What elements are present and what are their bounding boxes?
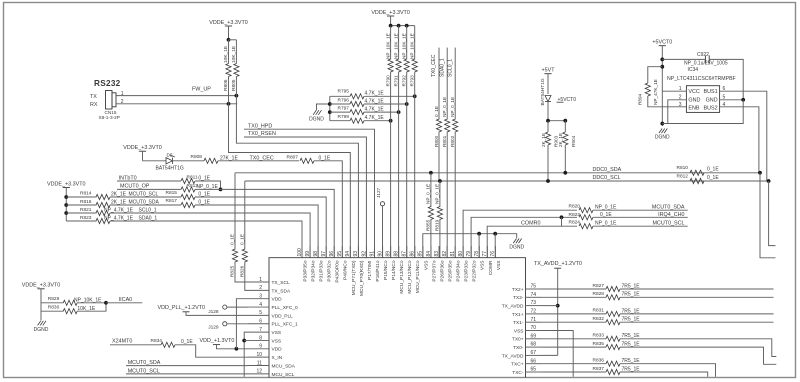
pin 73 (TX_AVDD) [502,300,542,309]
svg-text:VSS: VSS [480,261,486,271]
svg-text:IICA0: IICA0 [119,297,132,303]
net label TX0_RSEN [248,131,276,137]
svg-text:96: 96 [329,251,335,257]
resistor R810 [677,165,720,175]
svg-text:P15/NCo: P15/NCo [383,260,389,280]
svg-text:P14/NCo: P14/NCo [391,260,397,280]
resistor R817 [166,198,211,207]
svg-text:VSS: VSS [496,261,502,271]
svg-text:R821: R821 [80,207,92,213]
svg-text:R812: R812 [677,174,689,180]
net label MCUT0_SDA (right) [652,205,685,211]
wire MCUT0_SDA to pin98 [195,205,318,258]
svg-text:MCU_P13/NCo: MCU_P13/NCo [399,260,405,293]
svg-text:X_IN: X_IN [272,355,283,361]
svg-text:5: 5 [259,310,262,316]
pin 80 (P23/P33o) [458,246,470,282]
svg-text:GND: GND [688,98,700,104]
svg-text:TX2+: TX2+ [512,287,524,293]
net label X24MT0 [112,339,132,345]
svg-text:R836: R836 [593,358,605,364]
wire TX0_RSEN to pin92 [244,137,366,258]
node row1 tap [64,195,68,199]
svg-text:TX0_CEC: TX0_CEC [431,54,437,77]
svg-text:BUS2: BUS2 [704,105,718,111]
node VSS pin8 [242,339,246,343]
net label SCL0_1 (row) [139,207,157,213]
svg-text:VDD: VDD [272,297,283,303]
pin 2 (TX_SDA) [248,285,291,294]
svg-text:MCUT0_SCL: MCUT0_SCL [652,221,684,227]
resistor R831 [542,308,774,317]
resistor R791 [393,26,401,258]
label IC34 part [667,76,736,82]
svg-text:TX1-: TX1- [513,320,524,326]
power TX_AVDD_+1.2VT0 [534,261,582,355]
wire VSS rail [423,234,517,258]
svg-text:R834: R834 [151,338,163,344]
svg-text:R828: R828 [593,291,605,297]
wire pin78 drop [478,234,480,258]
svg-text:VDDE_+3.3VT0: VDDE_+3.3VT0 [371,10,410,16]
wire TX to MCU RXD pin93 [236,96,358,258]
net label TX0_CEC (vertical) [431,48,439,77]
resistor R801 [442,77,450,258]
svg-text:3: 3 [679,102,682,108]
svg-text:R827: R827 [593,283,605,289]
svg-text:7: 7 [259,327,262,333]
svg-text:83: 83 [434,251,440,257]
svg-text:P43/OP0o: P43/OP0o [335,260,341,282]
svg-text:+5VT: +5VT [541,68,555,74]
svg-text:NP_0_1E: NP_0_1E [442,97,447,117]
node R795-R793col [413,94,417,98]
resistor R837 [542,366,708,377]
svg-text:93: 93 [353,251,359,257]
svg-text:R824: R824 [569,219,581,225]
svg-text:MCU_SCL: MCU_SCL [272,372,295,378]
pin 96 (P43/OP0o) [329,246,341,283]
svg-text:VSS: VSS [423,261,429,271]
wire IICA0 [106,302,142,304]
pin 82 (P25/P35o) [442,246,454,282]
svg-text:78: 78 [474,251,480,257]
resistor R805 [231,40,239,96]
pin 3 (VDD) [248,294,283,303]
resistor R792 [402,26,410,258]
svg-text:4.7K_1E: 4.7K_1E [365,115,385,121]
svg-text:TX_SDA: TX_SDA [272,288,291,294]
svg-text:D5: D5 [167,153,173,159]
wire BUS1 stub [769,181,776,246]
svg-text:65: 65 [531,367,537,373]
wire jog to R805 [229,39,237,41]
node rail-R790 [389,24,393,28]
ground DGND (IICA0) [34,321,49,333]
resistor R836 [542,358,716,377]
svg-text:VSS: VSS [272,330,282,336]
svg-text:R807: R807 [287,154,299,160]
svg-text:R799: R799 [338,114,350,120]
svg-text:SCL0_1: SCL0_1 [447,59,453,77]
svg-text:4: 4 [723,102,726,108]
pin 77 (COMR) [482,246,494,275]
pin 78 (VSS) [474,246,486,270]
op-amp U MCU box [269,258,526,378]
pin 11 (MCU_SDA) [248,360,296,369]
power VDDE_+3.3VT0 (top left) [209,20,248,40]
svg-text:R894: R894 [638,93,643,105]
pin 10 (X_IN) [248,352,283,361]
wire RX to MCU TXD pin94 [229,104,351,258]
svg-text:R814: R814 [80,190,92,196]
net label MCUT0_SDA (row) [110,200,181,206]
svg-text:0_1E: 0_1E [230,234,235,245]
pin 4 (IC34) [720,102,759,173]
svg-text:6: 6 [259,319,262,325]
resistor R903 [541,121,559,181]
svg-text:R805: R805 [231,79,237,91]
wire pulldown bus [329,96,331,120]
wire DDC0_SCL [245,180,769,182]
net label FW_UP [192,87,211,93]
label IC34 GND/GND [688,98,717,104]
wire CN15 pin1 (FW_UP / TX) [116,95,236,97]
resistor R796 [330,98,407,107]
svg-text:R791: R791 [393,75,398,87]
pin 81 (P24/P34o) [450,246,462,282]
node R797-R791col [397,110,401,114]
node R903-SCL [546,179,550,183]
svg-text:R796: R796 [338,98,350,104]
power VDDE_+3.3VT0 (IICA0) [22,283,61,321]
node rail-R792 [405,24,409,28]
pin 5 (IC34) [720,94,744,100]
node R799-R790col [389,119,393,123]
resistor R830 [41,303,106,314]
node RX junction [227,102,231,106]
net label SCL0_1 (vertical) [447,48,455,77]
pin 74 (TX2-) [513,292,541,301]
svg-text:NP_4.7K_1E: NP_4.7K_1E [104,215,134,221]
svg-text:NP_0_1E: NP_0_1E [595,205,617,211]
svg-text:74: 74 [531,292,537,298]
svg-text:82: 82 [442,251,448,257]
resistor R799 [330,114,391,123]
svg-text:70: 70 [531,325,537,331]
svg-text:DGND: DGND [309,116,324,122]
svg-text:R793: R793 [410,75,415,87]
wire SDA0_1 to pin100 [110,221,302,258]
svg-text:12: 12 [256,369,262,375]
node SDA-R855 [429,171,433,175]
svg-text:GND: GND [706,98,718,104]
net label MCUT0_SCL (bottom) [128,368,160,374]
node pin5-C922 [741,98,745,102]
node VDD join [235,347,239,351]
svg-text:90: 90 [377,251,383,257]
svg-text:1: 1 [121,91,124,97]
svg-text:MCU_P70(RXD): MCU_P70(RXD) [359,260,365,296]
svg-text:P26/P36o: P26/P36o [439,260,445,281]
svg-text:MCUT0_OP: MCUT0_OP [120,183,150,189]
resistor R802 [450,77,458,258]
svg-text:88: 88 [394,251,400,257]
pin 86 (MCU_P11/NCo) [410,246,422,293]
svg-text:DGND: DGND [34,327,49,333]
resistor R797 [330,106,399,115]
jumper J127 [376,187,384,257]
wire TX0_HPD to pin91 [244,129,375,258]
svg-text:PLL_XFC_0: PLL_XFC_0 [272,305,298,311]
pin 97 (P30/P32o) [321,246,333,282]
svg-text:TX_AVDD_+1.2VT0: TX_AVDD_+1.2VT0 [534,261,582,267]
svg-text:DGND: DGND [655,135,670,141]
pin 5 (VDD_PLL) [248,310,294,319]
node 2K-right [563,119,567,123]
label IC34 ENB/BUS2 [688,105,717,111]
resistor R894 [638,67,687,107]
net label MCUT0_SDA (bottom) [128,360,161,366]
svg-text:67: 67 [531,350,537,356]
svg-text:J129: J129 [208,324,219,330]
svg-text:VDDE_+3.3VT0: VDDE_+3.3VT0 [209,20,248,26]
svg-text:R820: R820 [569,204,581,210]
svg-text:NP_0.1u/25V_1005: NP_0.1u/25V_1005 [684,60,728,66]
svg-text:P24/P34o: P24/P34o [456,260,462,281]
node R904-SDA [563,171,567,175]
svg-text:BUS1: BUS1 [704,89,718,95]
svg-text:R817: R817 [166,198,178,204]
svg-text:99: 99 [305,251,311,257]
net label SDA0_1 (row) [139,215,158,221]
resistor R835 [542,341,777,364]
svg-text:81: 81 [450,251,456,257]
node rail-pin78 [477,232,481,236]
svg-text:100: 100 [297,248,303,257]
svg-text:VDDE_+3.3VT0: VDDE_+3.3VT0 [123,145,162,151]
svg-text:0_1E: 0_1E [239,234,244,245]
svg-text:TXC-: TXC- [512,370,524,376]
net label MCUT0_OP [120,183,150,189]
svg-text:10: 10 [256,352,262,358]
net label IICA0 [119,297,132,303]
svg-text:R829: R829 [48,296,60,302]
pin 12 (MCU_SCL) [248,369,295,378]
ground DGND (R795 group) [309,104,330,122]
pin 1 (IC34) [662,86,686,92]
node bus-row2 [328,102,332,106]
svg-text:NP_LTC4311CSC6#TRMPBF: NP_LTC4311CSC6#TRMPBF [667,76,736,82]
svg-text:7R5_1E: 7R5_1E [622,317,641,323]
resistor R793 [410,26,418,258]
net label TX0_CEC [250,156,274,162]
svg-text:7R5_1E: 7R5_1E [622,292,641,298]
power VDD_PLL_+1.2VT0 [158,305,248,316]
resistor R833 [542,333,777,357]
pin 2 (IC34) [662,94,686,123]
pin 72 (TX1+) [512,309,542,318]
wire pullup top rail [391,25,415,27]
svg-text:DGND: DGND [509,245,524,251]
label IC34 VCC/BUS1 [688,89,717,95]
svg-text:R802: R802 [450,135,455,147]
svg-text:DDC0_SCL: DDC0_SCL [593,175,621,181]
svg-text:PLL_XFC_1: PLL_XFC_1 [272,322,298,328]
pin 90 (P15/NCo) [377,246,389,280]
svg-text:MCUT0_SDA: MCUT0_SDA [128,360,161,366]
svg-text:R792: R792 [402,75,407,87]
diode D BAT54HT1G (vertical) [540,78,551,121]
pin 89 (P14/NCo) [385,246,397,280]
svg-text:MCU_P11/NCo: MCU_P11/NCo [415,260,421,293]
connector CN15 [90,91,120,121]
node row2 tap [64,203,68,207]
node pullup feed [227,38,231,42]
resistor R824 [562,217,688,228]
svg-text:8: 8 [259,335,262,341]
svg-text:NP_0_1E: NP_0_1E [450,97,455,117]
wire pin76 drop [494,234,496,258]
pin 69 (TX0+) [512,333,542,342]
svg-text:91: 91 [369,251,375,257]
svg-text:VDDE_+3.3VT0: VDDE_+3.3VT0 [22,283,61,289]
svg-text:TX0_RSEN: TX0_RSEN [248,131,276,137]
svg-text:85: 85 [418,251,424,257]
resistor R829 [41,296,106,305]
svg-text:RS232: RS232 [94,79,121,88]
pin 75 (TX2+) [512,284,542,293]
svg-text:7R5_1E: 7R5_1E [622,283,641,289]
svg-text:94: 94 [345,251,351,257]
svg-text:R801: R801 [442,135,447,147]
wire CN15 pin2 (RX) [116,103,237,105]
svg-text:TX_SCL: TX_SCL [272,280,290,286]
wire MCUT0_SDA to pin11 [126,365,248,367]
resistor R807 [287,154,331,163]
svg-text:C922: C922 [697,52,709,58]
svg-text:0_1E: 0_1E [181,339,193,345]
svg-text:VDDE_+3.3VT0: VDDE_+3.3VT0 [47,181,86,187]
wire MCUT0_OP net to pin96 [195,189,334,257]
pin 99 (P32/P34o) [305,246,317,282]
wire BUS2 stub [760,173,776,258]
svg-text:VSS: VSS [514,328,524,334]
pin 67 (TX_AVDD) [502,350,542,359]
svg-text:P25/P35o: P25/P35o [447,260,453,281]
svg-text:NP_0_1E: NP_0_1E [595,221,617,227]
svg-text:VDD_PLL_+1.2VT0: VDD_PLL_+1.2VT0 [158,305,206,311]
resistor R825 [230,173,248,282]
net label TX0_HPD [248,123,272,129]
power +5VCT0 (IC34) [652,40,672,127]
svg-text:71: 71 [531,317,537,323]
power +5VT [541,68,555,95]
resistor R828 [542,291,774,300]
power VDDE_+3.3VT0 (D5) [123,145,162,161]
resistor R812 [677,174,720,184]
svg-text:R823: R823 [80,215,92,221]
ground DGND (IC34) [655,129,670,141]
svg-text:TX0_HPD: TX0_HPD [248,123,272,129]
pin 85 (VSS) [418,246,430,270]
svg-text:MCU_P12/NCo: MCU_P12/NCo [407,260,413,293]
svg-text:R830: R830 [48,304,60,310]
resistor R800 [434,77,442,181]
net label DDC0_SDA [593,167,622,173]
svg-text:87: 87 [402,251,408,257]
svg-text:P17/TIMI: P17/TIMI [367,261,373,280]
svg-text:P30/P32o: P30/P32o [327,260,333,281]
resistor R816 [66,199,126,208]
pin 79 (P22/P32o) [466,246,478,282]
svg-text:R800: R800 [434,135,439,147]
node 2K-left [546,119,550,123]
svg-text:P27/P37o: P27/P37o [431,260,437,281]
node bus-row3 [328,110,332,114]
svg-text:72: 72 [531,309,537,315]
pin 94 (MCU_P71(TXD)) [345,246,357,295]
resistor R814 [66,190,126,199]
node R822/R824 join [560,215,564,219]
pin 68 (TX0-) [513,342,541,351]
pin 70 (VSS) [514,325,542,334]
node R796-R792col [405,102,409,106]
svg-text:RX: RX [90,102,98,108]
pin 1 label (CN15) [121,91,124,97]
svg-text:P23/P33o: P23/P33o [464,260,470,281]
svg-text:79: 79 [466,251,472,257]
resistor R904 [558,121,576,173]
svg-text:J128: J128 [208,309,219,315]
resistor R813 [117,183,218,192]
resistor R832 [542,316,774,325]
svg-text:0_1E: 0_1E [434,106,439,117]
node SCL-R819 [438,179,442,183]
svg-text:ENB: ENB [688,105,699,111]
svg-text:10K_1E: 10K_1E [231,46,237,63]
svg-text:2K_1E: 2K_1E [541,133,546,147]
pin 87 (MCU_P12/NCo) [402,246,414,294]
svg-text:80: 80 [458,251,464,257]
resistor R821 [66,207,133,216]
svg-text:IC34: IC34 [688,67,699,73]
svg-text:86: 86 [410,251,416,257]
svg-text:7R5_1E: 7R5_1E [622,358,641,364]
resistor R823 [66,215,133,224]
svg-text:TX: TX [90,94,97,100]
pin 8 (VSS) [248,335,282,344]
svg-text:7R5_1E: 7R5_1E [622,308,641,314]
svg-text:TX1+: TX1+ [512,312,524,318]
svg-text:84: 84 [426,251,432,257]
pin 3 (IC34) [679,102,682,108]
resistor R795 [330,89,415,99]
node gnd join [660,122,664,126]
svg-text:BAT54HT1G: BAT54HT1G [156,166,184,172]
pin 92 (P17/TIMI) [361,246,373,280]
svg-text:7R5_1E: 7R5_1E [622,333,641,339]
svg-text:0_1E: 0_1E [707,175,719,181]
pin 83 (P26/P36o) [434,246,446,282]
svg-text:+5VCT0: +5VCT0 [652,40,672,46]
capacitor C922 [662,52,743,100]
svg-text:2: 2 [121,99,124,105]
ground DGND (VSS rail) [509,239,524,251]
svg-text:0_1E: 0_1E [707,167,719,173]
net label MCUT0_SCL (row) [110,192,181,198]
diode D5 BAT54HT1G [143,153,205,172]
